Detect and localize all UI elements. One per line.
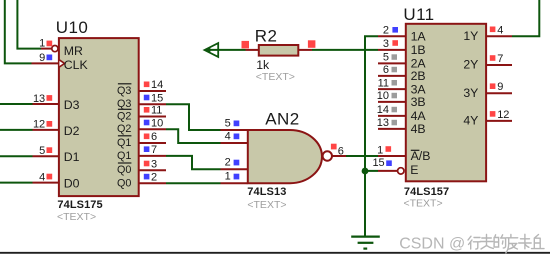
U10 label Q2bar	[117, 109, 131, 122]
U11 pin 2 state square	[392, 27, 398, 33]
svg-text:15: 15	[372, 157, 384, 169]
wire Q0 to AN2 pin1	[166, 182, 221, 184]
wire Q3 to AN2 pin5	[166, 104, 221, 130]
wire R2 to U11 1B	[312, 49, 378, 51]
U10 pin 11 state square	[144, 107, 150, 113]
U10 pin 2 state square	[144, 174, 150, 180]
U11 pin 7 state square	[490, 55, 496, 61]
svg-text:4: 4	[497, 25, 503, 37]
AN2 pin 2 state square	[234, 160, 240, 166]
svg-text:<TEXT>: <TEXT>	[57, 211, 96, 223]
U11 pin 4 state square	[490, 27, 496, 33]
wire Q2 to AN2 pin4	[166, 129, 221, 143]
wire 1Y to top edge	[512, 0, 539, 36]
svg-text:5: 5	[39, 145, 45, 157]
U11 pin 12 state square	[490, 111, 496, 117]
svg-text:12: 12	[497, 109, 509, 121]
U10 pin 14 state square	[144, 82, 150, 88]
AN2 output bubble	[323, 151, 332, 160]
svg-text:5: 5	[225, 118, 231, 130]
U10 label Q0bar	[117, 163, 131, 176]
U10 pin 3 state square	[144, 161, 150, 167]
watermark chinese glyphs approximation	[468, 234, 544, 253]
U10 pin 13 state square	[47, 95, 53, 101]
svg-text:2: 2	[225, 157, 231, 169]
svg-text:14: 14	[377, 104, 389, 116]
svg-text:15: 15	[151, 92, 163, 104]
U11 label A/B with overline on A	[411, 149, 431, 163]
U11 pin 10 state square	[392, 93, 398, 99]
svg-text:2B: 2B	[411, 69, 426, 83]
svg-text:Q0: Q0	[117, 177, 131, 189]
R2 pin stubs	[246, 49, 313, 51]
U11 pin stubs right	[486, 36, 512, 121]
svg-text:1Y: 1Y	[463, 29, 478, 43]
AN2 pin 5 state square	[234, 121, 240, 127]
svg-text:Q0: Q0	[117, 164, 131, 176]
svg-text:<TEXT>: <TEXT>	[404, 198, 443, 210]
wire MR net vertical+horizontal to U10.MR	[17, 0, 41, 49]
svg-text:6: 6	[383, 64, 389, 76]
svg-text:<TEXT>: <TEXT>	[247, 199, 286, 211]
svg-text:3Y: 3Y	[463, 86, 478, 100]
svg-text:D2: D2	[64, 124, 80, 138]
svg-text:1k: 1k	[256, 58, 270, 72]
gate AN2 body	[248, 130, 322, 183]
svg-text:Q2: Q2	[117, 123, 131, 135]
U10 label Q1bar	[117, 136, 131, 149]
U11 pin stubs left	[378, 36, 406, 171]
AN2 pin 4 state square	[234, 134, 240, 140]
U11 pin 1 state square	[386, 146, 392, 152]
wire D0 input	[0, 182, 33, 184]
U11 pin 15 state square	[386, 160, 392, 166]
svg-text:R2: R2	[255, 27, 278, 46]
svg-text:11: 11	[378, 77, 389, 89]
U10 pin stubs right	[139, 91, 166, 183]
U10 MR bubble	[52, 46, 58, 52]
U10 label Q3bar	[117, 84, 131, 97]
svg-text:4B: 4B	[411, 122, 426, 136]
wire AN2 output to U11 A/B	[346, 155, 378, 157]
svg-text:4A: 4A	[411, 109, 427, 123]
svg-text:E: E	[410, 163, 418, 177]
svg-text:2Y: 2Y	[463, 58, 478, 72]
svg-text:1: 1	[39, 37, 45, 49]
svg-text:1B: 1B	[411, 43, 426, 57]
U11 pin 13 state square	[392, 120, 398, 126]
svg-text:9: 9	[39, 52, 45, 64]
U11 pin 5 state square	[392, 54, 398, 60]
wire vertical bus to ground	[365, 36, 378, 236]
wire Q1 to AN2 pin2	[166, 156, 221, 169]
svg-text:10: 10	[151, 117, 163, 129]
svg-text:3B: 3B	[411, 95, 426, 109]
R2 left state square	[242, 41, 250, 49]
R2 right state square	[308, 40, 316, 48]
svg-text:1: 1	[225, 171, 231, 183]
wire D3 input	[0, 103, 33, 105]
svg-text:1: 1	[377, 144, 383, 156]
svg-text:2: 2	[151, 171, 157, 183]
chip U10 body	[59, 38, 139, 196]
svg-text:2: 2	[383, 25, 389, 37]
svg-text:<TEXT>: <TEXT>	[256, 71, 295, 83]
svg-text:Q3: Q3	[117, 98, 131, 110]
svg-text:5: 5	[383, 52, 389, 64]
svg-text:Q2: Q2	[117, 111, 131, 123]
svg-text:3: 3	[151, 158, 157, 170]
svg-text:1A: 1A	[411, 30, 427, 44]
svg-text:10: 10	[377, 90, 389, 102]
svg-text:A/B: A/B	[411, 149, 431, 163]
svg-text:AN2: AN2	[265, 110, 299, 129]
AN2 pin 1 state square	[234, 174, 240, 180]
U10 pin 9 state square	[47, 55, 53, 61]
junction node at E wire	[362, 168, 369, 175]
svg-text:6: 6	[151, 131, 157, 143]
U10 pin 15 state square	[144, 95, 150, 101]
svg-text:7: 7	[497, 53, 503, 65]
U10 pin stubs left	[32, 49, 59, 183]
svg-text:6: 6	[338, 145, 344, 157]
resistor R2 body	[259, 45, 299, 56]
svg-text:U11: U11	[403, 5, 434, 24]
svg-text:4: 4	[39, 172, 45, 184]
U10 pin 7 state square	[144, 146, 150, 152]
wire D2 input	[0, 129, 33, 131]
svg-text:12: 12	[33, 119, 45, 131]
chip U11 body	[406, 24, 486, 182]
svg-text:4: 4	[225, 131, 231, 143]
terminal arrow input	[204, 43, 219, 57]
svg-text:74LS157: 74LS157	[404, 186, 449, 198]
svg-text:D3: D3	[64, 98, 80, 112]
wire terminal to R2	[205, 49, 246, 51]
U11 pin 9 state square	[490, 83, 496, 89]
svg-text:CLK: CLK	[64, 58, 89, 72]
svg-text:CSDN @: CSDN @	[399, 235, 465, 252]
U10 pin 1 state square	[47, 41, 53, 47]
U10 pin 10 state square	[144, 120, 150, 126]
wire E pin	[365, 170, 378, 172]
bottom border line	[0, 252, 550, 254]
U11 pin 3 state square	[392, 40, 398, 46]
svg-text:7: 7	[151, 144, 157, 156]
U11 pin 6 state square	[392, 67, 398, 73]
svg-text:14: 14	[151, 79, 163, 91]
svg-text:Q3: Q3	[117, 85, 131, 97]
U10 CLK triangle	[59, 60, 64, 67]
svg-text:MR: MR	[64, 44, 83, 58]
U11 pin 11 state square	[392, 80, 398, 86]
svg-text:9: 9	[497, 81, 503, 93]
AN2 pin 6 state square	[331, 144, 337, 150]
svg-text:U10: U10	[56, 18, 88, 37]
svg-text:13: 13	[377, 117, 389, 129]
wire CLK net vertical+horizontal to U10.CLK	[5, 0, 32, 63]
svg-text:13: 13	[33, 93, 45, 105]
svg-text:4Y: 4Y	[463, 114, 478, 128]
svg-text:74LS175: 74LS175	[57, 199, 102, 211]
AN2 pin stubs	[221, 130, 347, 183]
svg-text:Q1: Q1	[117, 150, 131, 162]
svg-text:3: 3	[383, 38, 389, 50]
wire D1 input	[0, 155, 33, 157]
svg-text:11: 11	[151, 105, 162, 117]
U10 pin 5 state square	[47, 147, 53, 153]
ground	[351, 237, 380, 249]
svg-text:Q1: Q1	[117, 137, 131, 149]
U10 pin 4 state square	[47, 174, 53, 180]
svg-text:D1: D1	[64, 150, 80, 164]
svg-text:D0: D0	[64, 176, 80, 190]
svg-text:74LS13: 74LS13	[247, 186, 286, 198]
U11 pin 14 state square	[392, 107, 398, 113]
U11 E bubble	[398, 168, 404, 174]
U10 pin 6 state square	[144, 134, 150, 140]
U10 pin 12 state square	[47, 121, 53, 127]
